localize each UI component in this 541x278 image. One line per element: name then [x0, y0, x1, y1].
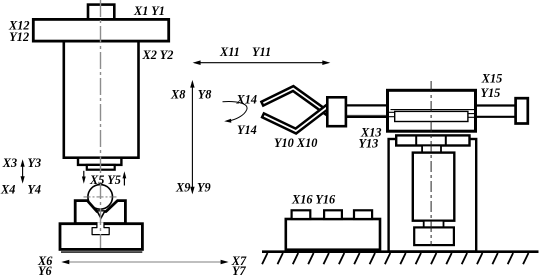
arc arrow X14 rotation — [223, 102, 248, 123]
tool step 2 — [87, 165, 115, 170]
label X8 — [170, 88, 185, 102]
svg-text:X15: X15 — [481, 71, 503, 85]
main cylinder — [388, 90, 476, 131]
tool step 1 — [78, 158, 121, 165]
label X4 — [0, 183, 15, 197]
press centerline — [100, 0, 102, 248]
feeder block X16 — [286, 219, 380, 250]
T-slot in base — [92, 222, 109, 234]
ball workpiece — [84, 185, 118, 210]
gripper lower jaw — [262, 105, 329, 134]
label X7 — [231, 254, 247, 268]
press head small box — [88, 5, 114, 22]
label Y3 — [28, 156, 42, 170]
svg-text:Y10 X10: Y10 X10 — [274, 136, 317, 150]
piston internals — [389, 110, 475, 122]
label X15 — [481, 71, 503, 85]
svg-text:X3: X3 — [2, 156, 17, 170]
label Y11 — [252, 45, 271, 59]
gripper upper jaw — [261, 86, 329, 115]
piston rod right — [476, 106, 517, 117]
svg-text:X8: X8 — [170, 88, 185, 102]
lower connector — [424, 221, 444, 228]
ground hatching — [262, 253, 528, 264]
arrow X3/X4 vertical double arrow — [21, 159, 25, 183]
label X6 — [37, 254, 53, 268]
inner cylinder — [413, 153, 455, 221]
label X2 Y2 — [142, 48, 174, 62]
svg-text:X9: X9 — [175, 180, 190, 194]
rod end cap — [516, 98, 528, 123]
label Y13 — [359, 137, 379, 151]
feeder bump 2 — [324, 210, 342, 219]
svg-text:Y13: Y13 — [359, 137, 379, 151]
label Y7 — [232, 264, 247, 278]
label Y12 — [9, 30, 29, 44]
mount bar — [396, 135, 469, 145]
svg-text:X1 Y1: X1 Y1 — [133, 4, 165, 18]
feeder bump 1 — [292, 210, 311, 219]
label X14 — [236, 93, 258, 107]
label X3 — [2, 156, 17, 170]
label X5 Y5 — [89, 173, 121, 187]
rod gripper to cylinder — [344, 105, 388, 117]
label X16 Y16 — [291, 192, 336, 206]
gripper block — [327, 97, 346, 126]
svg-text:X2 Y2: X2 Y2 — [142, 48, 174, 62]
svg-text:X14: X14 — [236, 93, 258, 107]
feeder bump 3 — [354, 210, 372, 219]
svg-text:Y7: Y7 — [232, 264, 247, 278]
label X9 — [175, 180, 190, 194]
svg-text:X5 Y5: X5 Y5 — [89, 173, 121, 187]
svg-text:Y3: Y3 — [28, 156, 42, 170]
svg-text:X4: X4 — [0, 183, 15, 197]
svg-text:Y4: Y4 — [27, 183, 41, 197]
label Y15 — [481, 86, 501, 100]
arrow X6-X7 horizontal double arrow — [61, 260, 228, 265]
svg-text:Y15: Y15 — [481, 86, 501, 100]
V-block — [75, 201, 125, 224]
ground line — [262, 250, 539, 253]
label Y4 — [27, 183, 41, 197]
label Y10 X10 — [274, 136, 317, 150]
arrow X8-X9 vertical double arrow — [190, 80, 194, 194]
svg-text:X11: X11 — [219, 45, 240, 59]
svg-text:X16 Y16: X16 Y16 — [291, 192, 336, 206]
base plate — [60, 224, 142, 252]
svg-text:Y12: Y12 — [9, 30, 29, 44]
arrow X11 horizontal double arrow — [193, 60, 331, 65]
arrow X5 down — [82, 171, 86, 184]
label X11 — [219, 45, 240, 59]
svg-text:Y14: Y14 — [237, 123, 257, 137]
label Y14 — [237, 123, 257, 137]
svg-text:Y8: Y8 — [198, 88, 212, 102]
label X12 — [8, 19, 30, 33]
svg-text:Y9: Y9 — [197, 180, 211, 194]
label Y8 — [198, 88, 212, 102]
label Y9 — [197, 180, 211, 194]
right machine centerline — [430, 81, 432, 246]
svg-text:Y11: Y11 — [252, 45, 271, 59]
neck block — [422, 146, 441, 153]
label Y6 — [38, 264, 53, 278]
bottom box — [414, 227, 454, 245]
press crossbeam — [33, 19, 168, 41]
label X13 — [360, 125, 382, 139]
press column — [64, 40, 139, 158]
label X1 Y1 — [133, 4, 165, 18]
stand frame — [389, 139, 477, 252]
arrow Y5 up — [123, 171, 127, 185]
svg-text:Y6: Y6 — [38, 264, 53, 278]
